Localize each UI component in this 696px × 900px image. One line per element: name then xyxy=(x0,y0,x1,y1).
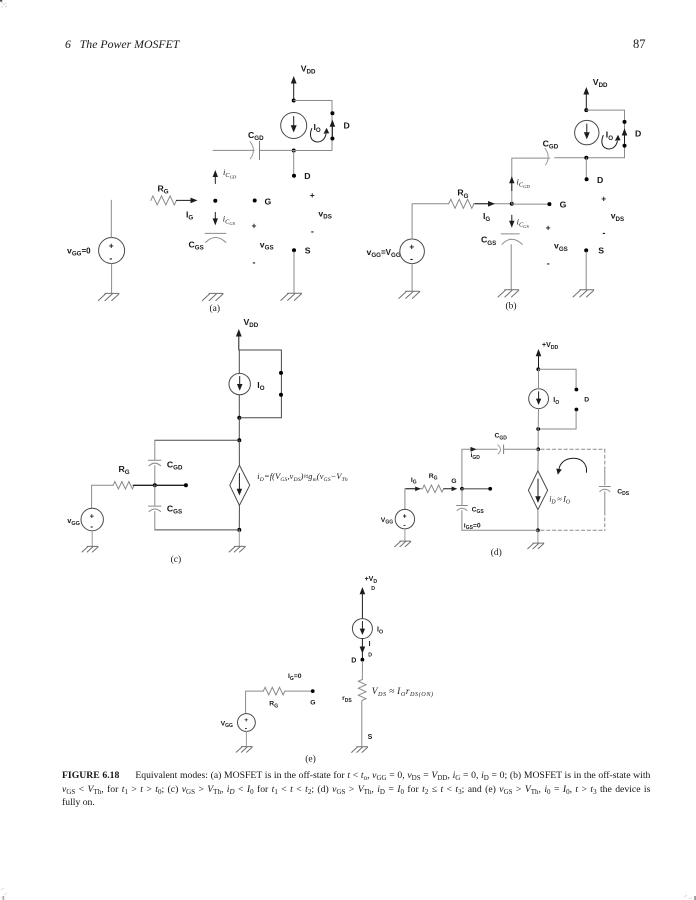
branch dot upper (a) xyxy=(330,111,334,115)
wire source to ground (e) xyxy=(245,731,247,746)
wire resistor to ground (e) xyxy=(361,701,363,747)
svg-text:RG: RG xyxy=(119,464,130,476)
svg-text:(b): (b) xyxy=(506,301,517,312)
main line arrow to circle (d) xyxy=(538,369,540,389)
main drain line upper (c) xyxy=(238,350,240,374)
wire source to ground (b) xyxy=(411,264,413,291)
wire CGS to bottom (c) xyxy=(154,512,156,530)
bottom wire left (c) xyxy=(155,529,240,531)
dependent source diamond (c) xyxy=(230,465,250,505)
svg-text:IO: IO xyxy=(606,130,613,142)
svg-text:vGG=VGG: vGG=VGG xyxy=(367,247,401,259)
wire source up (e) xyxy=(245,691,247,714)
svg-text:-: - xyxy=(90,521,93,531)
node loop bottom (c) xyxy=(237,416,241,420)
wire source to ground (c) xyxy=(91,531,93,547)
wire source to RG (d) xyxy=(405,489,423,510)
stub to ground (d) xyxy=(537,530,539,543)
svg-text:VDS ≈ IOrDS(ON): VDS ≈ IOrDS(ON) xyxy=(372,687,434,698)
source terminal dot S (a) xyxy=(292,248,296,252)
svg-text:+: + xyxy=(403,513,407,520)
source terminal dot S (b) xyxy=(584,248,588,252)
svg-text:D: D xyxy=(597,175,603,185)
current source IO (d) xyxy=(529,389,549,409)
capacitor CDS (d) xyxy=(599,487,610,492)
branch dot lower (b) xyxy=(623,144,627,148)
wire source to RG (c) xyxy=(92,485,114,508)
capacitor CGS (c) xyxy=(148,506,161,512)
svg-text:vGS: vGS xyxy=(260,240,274,252)
svg-text:VDD: VDD xyxy=(301,64,316,76)
wire S to ground (b) xyxy=(585,252,587,290)
dependent source diamond (d) xyxy=(528,471,547,510)
ground below CGS (b) xyxy=(498,290,519,297)
svg-text:S: S xyxy=(305,245,311,255)
node top (d) xyxy=(536,367,540,371)
ground below CGS (a) xyxy=(202,293,223,300)
svg-text:(d): (d) xyxy=(491,547,502,558)
svg-text:vDS: vDS xyxy=(318,209,331,221)
wire RG to gate node (c) xyxy=(133,484,155,486)
top tee wire right (c) xyxy=(239,350,281,418)
CIRCUIT E xyxy=(221,576,434,765)
wire CGS to bottom (d) xyxy=(461,511,463,531)
svg-text:iCGS: iCGS xyxy=(517,217,530,229)
svg-text:+VDD: +VDD xyxy=(542,342,559,351)
svg-text:(e): (e) xyxy=(305,754,316,765)
capacitor CGD (c) xyxy=(148,460,161,466)
dashed box right lower (d) xyxy=(604,492,606,512)
page number 87 xyxy=(633,37,646,52)
svg-text:CGS: CGS xyxy=(167,503,182,515)
wire tee to left branch (c) xyxy=(155,439,240,441)
svg-text:-: - xyxy=(410,254,413,264)
VDD arrow up (b) xyxy=(585,92,587,110)
svg-text:iGS=0: iGS=0 xyxy=(464,522,481,531)
svg-text:G: G xyxy=(265,196,272,206)
svg-text:iCGD: iCGD xyxy=(223,167,237,179)
svg-text:D: D xyxy=(584,397,589,404)
svg-text:S: S xyxy=(598,246,604,256)
node bottom of source (b) xyxy=(584,156,588,160)
wire bottom right (a) xyxy=(294,150,332,152)
wire CGD to gate node (c) xyxy=(154,466,156,486)
svg-text:RG: RG xyxy=(158,184,169,196)
capacitor CGS (b) xyxy=(501,234,522,244)
node G dot (b) xyxy=(547,202,551,206)
current arrow iGD (d) xyxy=(471,447,477,452)
svg-text:CGS: CGS xyxy=(481,235,496,247)
branch dot upper (c) xyxy=(279,371,283,375)
svg-text:+: + xyxy=(409,242,414,252)
ground below rDS (e) xyxy=(352,747,368,753)
ground below S (a) xyxy=(281,293,302,300)
wire top right (d) xyxy=(538,369,576,388)
drain terminal dot (a) xyxy=(292,174,296,178)
node G dot (a) xyxy=(253,199,257,203)
wire stub above source (a) xyxy=(110,200,112,237)
wire to drain terminal (b) xyxy=(585,158,587,178)
svg-text:vDS: vDS xyxy=(611,211,624,223)
svg-text:vGS: vGS xyxy=(554,241,568,253)
svg-text:iGD: iGD xyxy=(471,452,481,461)
loop arrow (b) xyxy=(602,136,618,149)
node bottom of source (a) xyxy=(292,149,296,153)
current arrow IG (b) xyxy=(475,203,490,205)
voltage source VGG (e) xyxy=(238,714,256,732)
arrow RG to gate (d) xyxy=(444,488,453,490)
capacitor CGD (a) xyxy=(250,142,253,159)
svg-text:I: I xyxy=(369,641,371,648)
node top (b) xyxy=(584,108,588,112)
ground below vGG source (b) xyxy=(399,291,420,298)
gate node dot (d) xyxy=(460,487,464,491)
CIRCUIT C xyxy=(67,317,348,565)
wire diamond to bottom node (c) xyxy=(238,505,240,530)
wire S to ground (a) xyxy=(293,252,295,293)
svg-text:RG: RG xyxy=(269,701,278,710)
branch dot upper (d) xyxy=(575,388,579,392)
svg-text:+: + xyxy=(546,223,551,233)
wire left of CGD (a) xyxy=(213,149,254,151)
VDD arrow up (e) xyxy=(361,592,363,619)
wire tee to diamond (c) xyxy=(238,440,240,465)
svg-text:-: - xyxy=(547,258,550,268)
loop arrow (a) xyxy=(310,129,326,142)
drain dot (e) xyxy=(361,658,365,662)
svg-text:CGS: CGS xyxy=(189,240,204,252)
wire to drain terminal (a) xyxy=(293,151,295,175)
gate riser wire (b) xyxy=(512,158,550,204)
current arrow IG (a) xyxy=(176,199,192,201)
wire circle to loop node (d) xyxy=(537,409,539,429)
wire D to resistor (e) xyxy=(361,661,363,679)
svg-text:IO: IO xyxy=(257,380,264,392)
branch arrow ID up (a) xyxy=(331,126,333,136)
svg-text:IG: IG xyxy=(411,477,417,486)
svg-text:S: S xyxy=(368,734,373,741)
svg-text:+: + xyxy=(601,193,606,203)
svg-text:VGG: VGG xyxy=(381,517,393,526)
svg-text:+: + xyxy=(244,717,248,724)
wire source to ground (d) xyxy=(404,529,406,541)
capacitor CGD (d) xyxy=(498,445,501,454)
dashed box bottom (d) xyxy=(541,529,605,531)
svg-text:VDD: VDD xyxy=(244,317,259,329)
wire left to RG (e) xyxy=(246,690,264,692)
curved arrow (d) xyxy=(559,458,587,472)
ground below diamond (d) xyxy=(528,543,544,549)
resistor rDS vertical (e) xyxy=(358,680,366,701)
voltage source vGG (b) xyxy=(400,239,425,264)
resistor RG (b) xyxy=(449,199,474,208)
current arrow iCgs down (b) xyxy=(511,215,513,222)
wire node to diamond (d) xyxy=(537,449,539,471)
wire RG to G dot (e) xyxy=(285,690,313,692)
left branch upper wire (c) xyxy=(154,440,156,460)
svg-text:RG: RG xyxy=(429,473,438,482)
current arrow IG (d) xyxy=(406,488,417,490)
svg-text:D: D xyxy=(344,121,350,131)
capacitor CGS (a) xyxy=(205,233,226,242)
wire CGD to IO node (b) xyxy=(555,157,625,159)
wire source to ground (a) xyxy=(111,264,113,294)
svg-text:G: G xyxy=(310,699,315,706)
current source IO (c) xyxy=(229,373,250,394)
ground below source (e) xyxy=(236,747,252,753)
gate node dot (c) xyxy=(153,483,157,487)
branch dot lower (a) xyxy=(330,137,334,141)
gate stub to right dot (c) xyxy=(155,484,186,486)
VDD arrow up (d) xyxy=(538,354,540,369)
wire top right (a) xyxy=(294,100,332,102)
ground below source (a) xyxy=(98,293,119,300)
node bottom (d) xyxy=(536,528,540,532)
wire gate to G (b) xyxy=(512,203,550,205)
node top (a) xyxy=(292,99,296,103)
svg-text:CDS: CDS xyxy=(617,488,630,497)
current source IO (e) xyxy=(352,619,372,639)
svg-text:IG: IG xyxy=(186,210,193,222)
voltage source vGG (c) xyxy=(81,508,103,530)
VDD arrow up (c) xyxy=(238,334,240,350)
dashed box right upper (d) xyxy=(604,449,606,468)
CIRCUIT D xyxy=(381,342,630,558)
wire top right (b) xyxy=(586,110,624,158)
svg-text:vGG=0: vGG=0 xyxy=(67,246,91,258)
gate node dot (b) xyxy=(510,202,514,206)
svg-text:iCGD: iCGD xyxy=(517,177,531,189)
wire source up and right to RG (b) xyxy=(412,204,449,239)
dashed box top (d) xyxy=(541,448,605,450)
voltage source vGG (a) xyxy=(99,238,125,264)
svg-text:rDS: rDS xyxy=(342,695,352,704)
wire gate riser top (d) xyxy=(462,449,497,489)
voltage source VGG (d) xyxy=(395,509,414,528)
wire source bottom to node (c) xyxy=(238,395,240,418)
current arrow iCgs down (a) xyxy=(214,212,216,219)
branch dot upper (b) xyxy=(623,120,627,124)
svg-text:IO: IO xyxy=(553,397,559,406)
svg-text:VGG: VGG xyxy=(221,720,233,729)
wire to gate tee (c) xyxy=(238,418,240,440)
svg-text:CGD: CGD xyxy=(248,130,264,142)
CIRCUIT A xyxy=(67,64,350,315)
wire branch lower (d) xyxy=(538,411,576,429)
svg-text:D: D xyxy=(371,586,375,592)
svg-text:-: - xyxy=(109,254,112,264)
wire right plate to node (a) xyxy=(260,149,294,151)
wire source to D dot with arrow ID (e) xyxy=(361,639,363,659)
svg-text:iCGS: iCGS xyxy=(223,214,236,226)
current arrow iCgd up (b) xyxy=(511,182,513,191)
wire gate node to CGS (c) xyxy=(154,485,156,506)
branch arrow ID up (b) xyxy=(624,135,626,144)
resistor RG (c) xyxy=(113,482,134,489)
wire right branch (a) xyxy=(331,101,333,151)
svg-text:iD=f(VGS,vDS)≈gm(vGS−VTh: iD=f(VGS,vDS)≈gm(vGS−VTh xyxy=(257,472,348,483)
wire gate to CGS (d) xyxy=(461,489,463,506)
svg-text:-: - xyxy=(311,226,314,236)
svg-text:IG=0: IG=0 xyxy=(288,673,302,682)
current arrow iCgd up (a) xyxy=(214,176,216,184)
scan smudge bottom-left corner xyxy=(1,888,7,898)
svg-text:IG: IG xyxy=(483,211,490,223)
svg-text:CGD: CGD xyxy=(167,459,183,471)
wire to CGD tee (d) xyxy=(537,429,539,449)
svg-text:D: D xyxy=(635,129,641,139)
gate dot G (e) xyxy=(311,689,315,693)
svg-text:+: + xyxy=(109,241,114,251)
CIRCUIT B xyxy=(367,77,642,312)
resistor RG (d) xyxy=(422,485,443,493)
node loop bottom (d) xyxy=(536,427,540,431)
scan smudge top-left corner xyxy=(0,0,2,2)
svg-text:RG: RG xyxy=(457,188,468,200)
ground below source (d) xyxy=(395,541,411,547)
figure caption xyxy=(62,769,696,810)
svg-text:+VD: +VD xyxy=(365,576,378,585)
branch dot lower (d) xyxy=(575,408,579,412)
ground below source (c) xyxy=(82,546,98,552)
svg-text:vGG: vGG xyxy=(67,516,80,527)
wire CGD to main node (d) xyxy=(504,448,538,450)
resistor RG (e) xyxy=(263,687,285,695)
svg-text:D: D xyxy=(368,652,372,658)
wire RG to gate (b) xyxy=(473,203,511,205)
svg-text:(c): (c) xyxy=(171,554,182,565)
svg-text:+: + xyxy=(310,190,315,200)
svg-text:D: D xyxy=(351,658,356,665)
svg-text:IO: IO xyxy=(377,626,383,635)
ground below S (b) xyxy=(573,290,594,297)
node gate tee (c) xyxy=(237,438,241,442)
current source IO (a) xyxy=(281,113,307,139)
svg-text:IO: IO xyxy=(314,122,321,134)
branch dot lower (c) xyxy=(279,393,283,397)
capacitor CGD (b) xyxy=(545,148,548,165)
svg-text:iD ≈ IO: iD ≈ IO xyxy=(549,495,571,506)
svg-text:+: + xyxy=(252,221,257,231)
svg-text:(a): (a) xyxy=(210,303,221,314)
bottom wire left (d) xyxy=(462,529,538,531)
loop bottom wire (c) xyxy=(239,417,281,419)
scan smudge bottom-right corner xyxy=(694,896,696,900)
svg-text:CGD: CGD xyxy=(495,433,508,442)
VDD arrow up (a) xyxy=(293,81,295,101)
capacitor CGS (d) xyxy=(457,506,468,511)
svg-text:-: - xyxy=(602,228,605,238)
wire CGS to ground (b) xyxy=(510,245,512,290)
current source IO (b) xyxy=(575,120,599,144)
node CGD tee (d) xyxy=(536,447,540,451)
svg-text:CGS: CGS xyxy=(472,506,485,515)
svg-text:G: G xyxy=(451,478,456,485)
gate stub end dot (c) xyxy=(184,483,188,487)
ground below diamond (c) xyxy=(229,546,245,552)
wire diamond to bottom node (d) xyxy=(537,510,539,531)
svg-text:VDD: VDD xyxy=(593,77,608,89)
drain terminal dot (b) xyxy=(585,177,589,181)
svg-text:+: + xyxy=(90,511,95,520)
svg-text:G: G xyxy=(560,200,567,210)
stub to ground (c) xyxy=(238,530,240,546)
gate node dot (a) xyxy=(213,199,217,203)
gate stub end dot (d) xyxy=(488,487,492,491)
node bottom (c) xyxy=(237,528,241,532)
resistor RG (a) xyxy=(151,196,177,205)
gate stub right (d) xyxy=(462,488,490,490)
svg-text:-: - xyxy=(253,258,256,268)
svg-text:D: D xyxy=(304,171,310,181)
running head xyxy=(65,37,179,52)
